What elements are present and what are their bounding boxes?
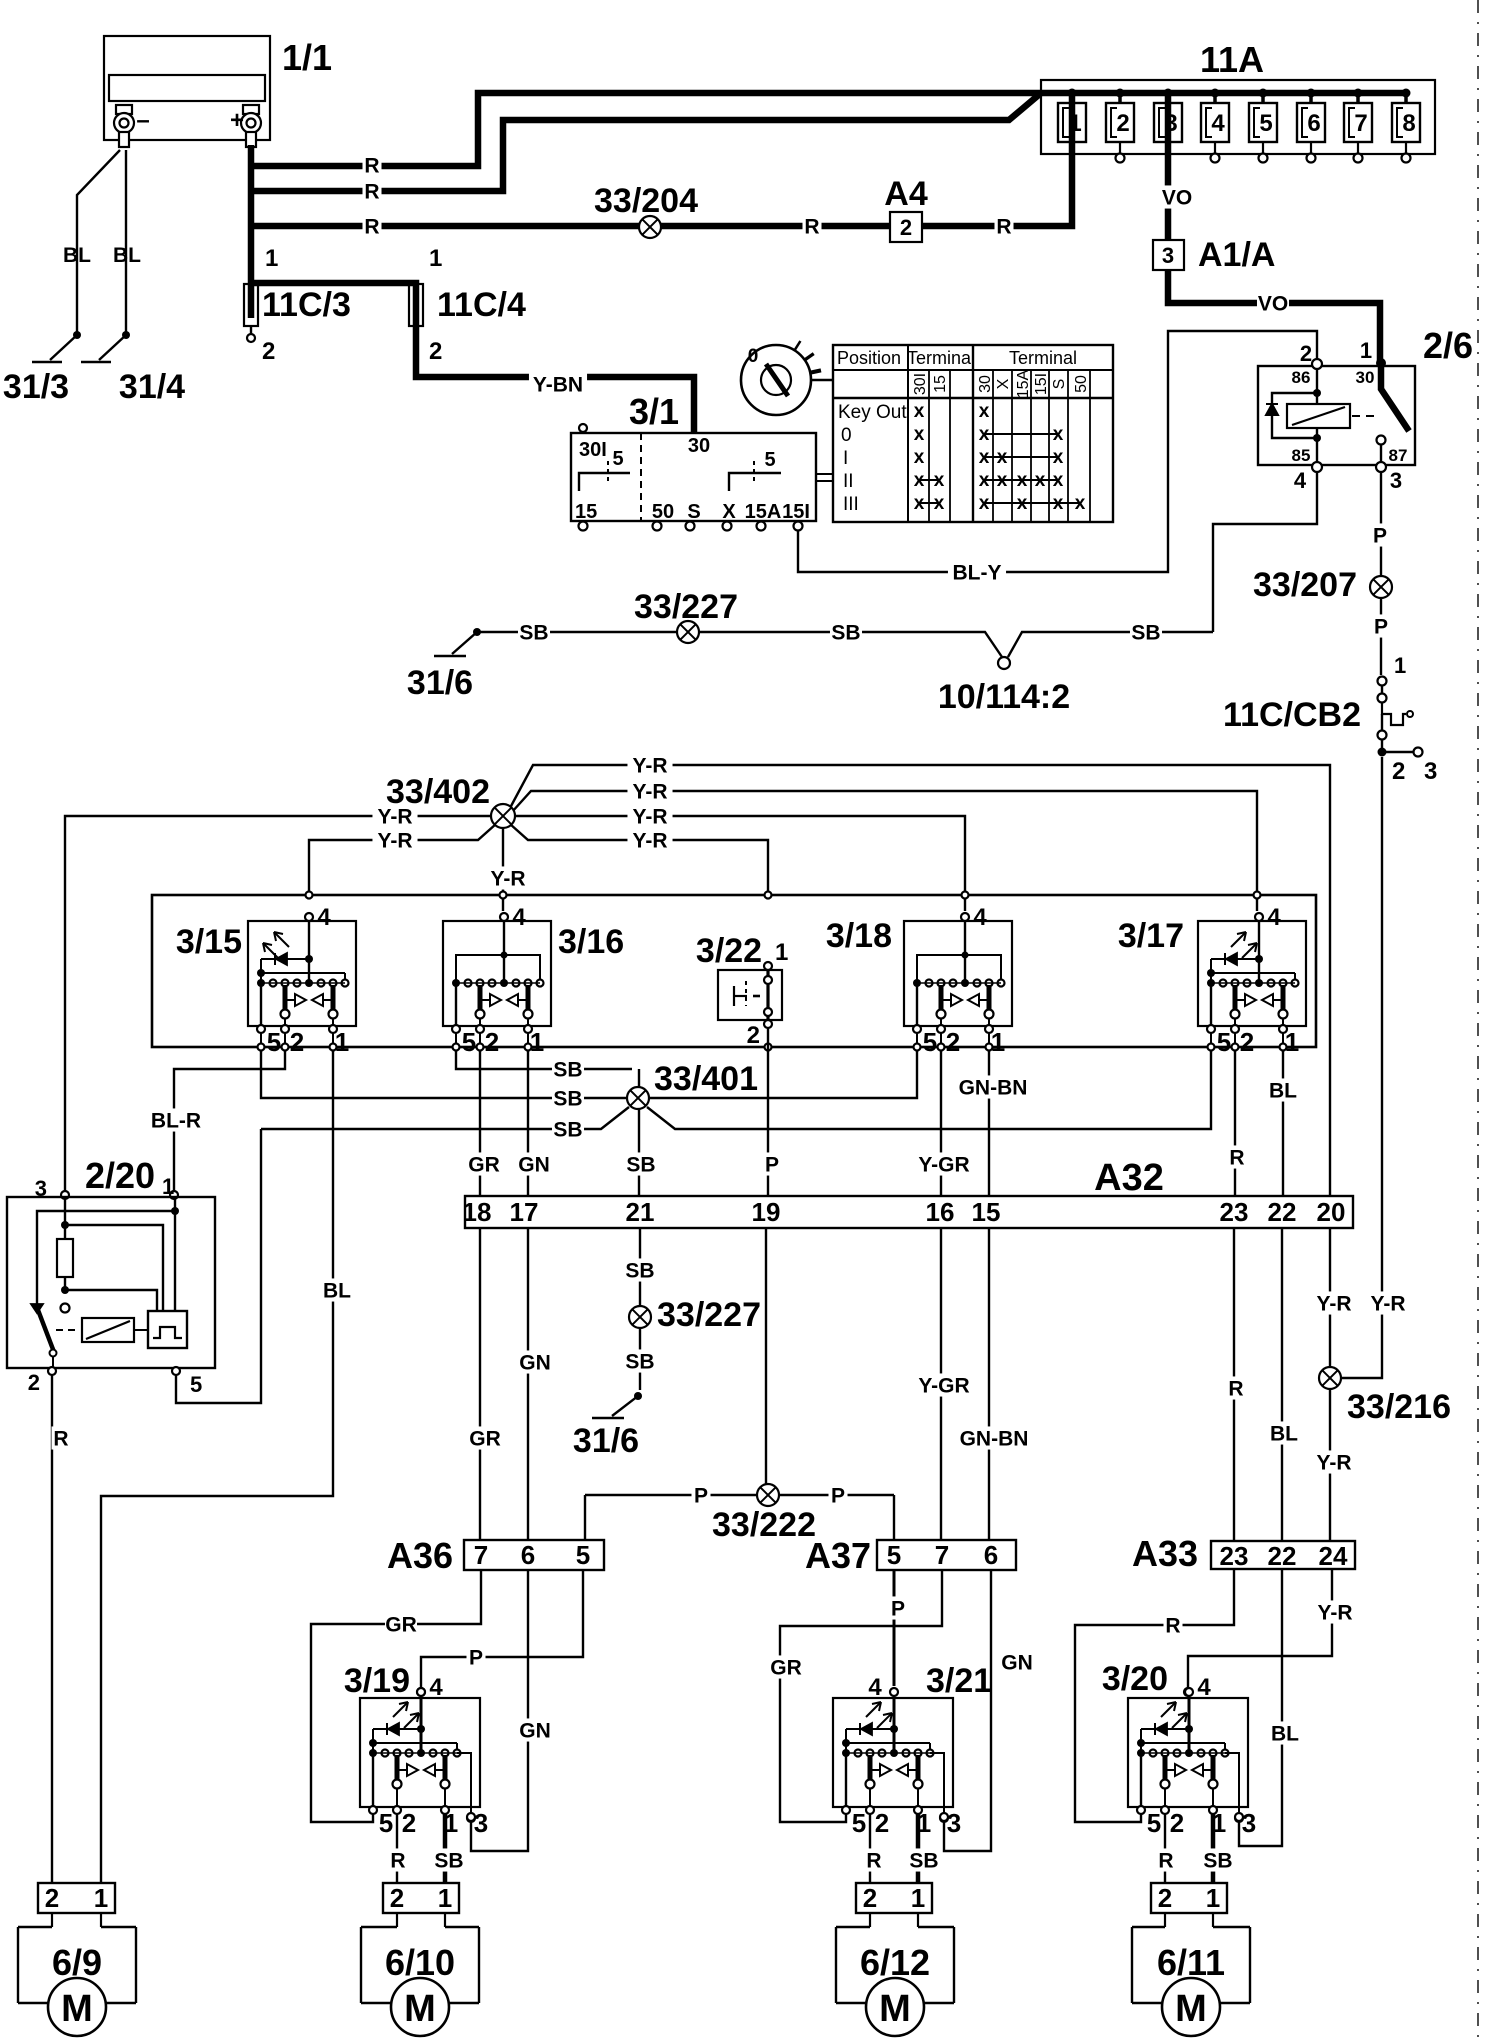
svg-text:S: S <box>687 501 700 523</box>
svg-text:4: 4 <box>1197 1674 1211 1701</box>
svg-text:11C/4: 11C/4 <box>437 286 526 324</box>
svg-text:SB: SB <box>909 1850 938 1873</box>
svg-text:Y-BN: Y-BN <box>533 374 583 397</box>
svg-text:Y-R: Y-R <box>1317 1602 1352 1625</box>
svg-text:I: I <box>843 448 848 469</box>
svg-text:19: 19 <box>752 1197 781 1227</box>
svg-text:33/207: 33/207 <box>1253 566 1357 604</box>
svg-text:15I: 15I <box>782 501 810 523</box>
svg-text:BL: BL <box>1270 1423 1298 1446</box>
svg-text:2: 2 <box>747 1022 760 1049</box>
svg-text:4: 4 <box>868 1674 882 1701</box>
svg-text:15A: 15A <box>745 501 782 523</box>
svg-text:Y-R: Y-R <box>632 830 667 853</box>
svg-text:33/216: 33/216 <box>1347 1388 1451 1426</box>
svg-text:10/114:2: 10/114:2 <box>938 678 1070 716</box>
svg-text:1: 1 <box>1394 653 1406 678</box>
svg-text:4: 4 <box>429 1674 443 1701</box>
svg-text:33/204: 33/204 <box>594 182 698 220</box>
svg-text:BL: BL <box>1269 1080 1297 1103</box>
svg-text:2: 2 <box>262 338 275 365</box>
svg-text:II: II <box>843 471 854 492</box>
svg-text:5: 5 <box>887 1540 901 1570</box>
svg-text:+: + <box>230 107 244 134</box>
svg-text:x: x <box>914 401 925 422</box>
svg-text:SB: SB <box>1131 622 1160 645</box>
svg-text:3/19: 3/19 <box>344 1662 410 1700</box>
svg-text:5: 5 <box>1217 1027 1231 1057</box>
svg-text:2/6: 2/6 <box>1423 325 1473 366</box>
svg-text:BL: BL <box>1271 1723 1299 1746</box>
svg-text:8: 8 <box>1402 110 1415 137</box>
svg-text:BL-Y: BL-Y <box>953 562 1002 585</box>
svg-text:R: R <box>1158 1850 1173 1873</box>
svg-text:A37: A37 <box>805 1535 871 1576</box>
svg-text:GR: GR <box>385 1614 417 1637</box>
svg-text:24: 24 <box>1319 1541 1348 1571</box>
svg-text:GN-BN: GN-BN <box>959 1077 1028 1100</box>
svg-text:50: 50 <box>652 501 674 523</box>
svg-text:1: 1 <box>775 939 788 966</box>
svg-text:0: 0 <box>748 346 759 367</box>
svg-text:BL: BL <box>113 244 141 267</box>
svg-text:2: 2 <box>946 1027 960 1057</box>
svg-text:31/6: 31/6 <box>407 664 473 702</box>
svg-text:86: 86 <box>1292 368 1311 387</box>
svg-text:GN: GN <box>519 1352 551 1375</box>
svg-text:7: 7 <box>474 1540 488 1570</box>
svg-text:M: M <box>404 1988 436 2030</box>
svg-text:3/21: 3/21 <box>926 1662 992 1700</box>
svg-text:5: 5 <box>1147 1808 1161 1838</box>
svg-text:6: 6 <box>521 1540 535 1570</box>
svg-text:P: P <box>765 1154 779 1177</box>
svg-text:M: M <box>1175 1988 1207 2030</box>
svg-text:2: 2 <box>290 1027 304 1057</box>
svg-text:SB: SB <box>434 1850 463 1873</box>
svg-text:2: 2 <box>863 1883 877 1913</box>
svg-text:R: R <box>390 1850 405 1873</box>
svg-text:2: 2 <box>1392 758 1405 785</box>
svg-text:16: 16 <box>926 1197 955 1227</box>
svg-text:R: R <box>1228 1378 1243 1401</box>
svg-text:18: 18 <box>463 1197 492 1227</box>
svg-text:5: 5 <box>379 1808 393 1838</box>
svg-text:Y-GR: Y-GR <box>918 1375 969 1398</box>
svg-text:GR: GR <box>468 1154 500 1177</box>
svg-text:VO: VO <box>1258 293 1288 316</box>
svg-text:A4: A4 <box>884 175 928 213</box>
svg-text:4: 4 <box>1294 468 1307 493</box>
svg-text:R: R <box>364 216 379 239</box>
svg-text:3: 3 <box>1390 468 1402 493</box>
svg-text:2: 2 <box>402 1808 416 1838</box>
svg-text:P: P <box>1374 616 1388 639</box>
svg-text:Terminal: Terminal <box>907 348 975 368</box>
svg-text:Y-R: Y-R <box>377 806 412 829</box>
svg-text:M: M <box>61 1988 93 2030</box>
svg-text:GN: GN <box>1001 1652 1033 1675</box>
svg-text:Y-R: Y-R <box>377 830 412 853</box>
svg-text:30: 30 <box>688 435 710 457</box>
svg-text:11C/CB2: 11C/CB2 <box>1223 696 1361 734</box>
svg-text:50: 50 <box>1073 375 1090 393</box>
svg-text:3: 3 <box>1424 758 1437 785</box>
svg-text:M: M <box>879 1988 911 2030</box>
svg-text:15A: 15A <box>1015 369 1032 398</box>
svg-text:11C/3: 11C/3 <box>262 286 351 324</box>
svg-text:R: R <box>804 216 819 239</box>
svg-text:R: R <box>364 181 379 204</box>
svg-text:2: 2 <box>1240 1027 1254 1057</box>
svg-text:Y-R: Y-R <box>490 868 525 891</box>
svg-text:x: x <box>914 424 925 445</box>
svg-text:85: 85 <box>1292 446 1311 465</box>
svg-text:5: 5 <box>576 1540 590 1570</box>
svg-text:3/16: 3/16 <box>558 923 624 961</box>
svg-text:GN: GN <box>519 1720 551 1743</box>
svg-text:22: 22 <box>1268 1197 1297 1227</box>
svg-text:III: III <box>843 494 859 515</box>
svg-text:33/227: 33/227 <box>634 588 738 626</box>
svg-text:31/4: 31/4 <box>119 368 185 406</box>
svg-text:R: R <box>53 1428 68 1451</box>
svg-text:SB: SB <box>626 1154 655 1177</box>
svg-text:4: 4 <box>1211 110 1225 137</box>
svg-text:1: 1 <box>429 245 442 272</box>
svg-text:1: 1 <box>1285 1027 1299 1057</box>
svg-text:BL: BL <box>323 1280 351 1303</box>
svg-text:3/15: 3/15 <box>176 923 242 961</box>
svg-text:3: 3 <box>474 1808 488 1838</box>
svg-text:6: 6 <box>1307 110 1320 137</box>
svg-text:Position: Position <box>837 348 901 368</box>
svg-text:X: X <box>995 378 1012 389</box>
svg-text:20: 20 <box>1317 1197 1346 1227</box>
svg-text:SB: SB <box>625 1351 654 1374</box>
svg-text:A33: A33 <box>1132 1533 1198 1574</box>
svg-text:GN: GN <box>518 1154 550 1177</box>
svg-text:Y-GR: Y-GR <box>918 1154 969 1177</box>
svg-text:4: 4 <box>1267 904 1281 931</box>
svg-text:1: 1 <box>1206 1883 1220 1913</box>
svg-text:SB: SB <box>625 1260 654 1283</box>
svg-text:R: R <box>1229 1147 1244 1170</box>
svg-text:P: P <box>469 1647 483 1670</box>
svg-text:Terminal: Terminal <box>1009 348 1077 368</box>
svg-text:P: P <box>831 1485 845 1508</box>
svg-text:2: 2 <box>1116 110 1129 137</box>
svg-text:2: 2 <box>45 1883 59 1913</box>
svg-text:1: 1 <box>991 1027 1005 1057</box>
svg-text:30: 30 <box>1356 368 1375 387</box>
svg-text:2/20: 2/20 <box>85 1155 155 1196</box>
svg-text:R: R <box>1165 1615 1180 1638</box>
svg-text:2: 2 <box>429 338 442 365</box>
svg-text:5: 5 <box>462 1027 476 1057</box>
svg-text:3/20: 3/20 <box>1102 1660 1168 1698</box>
svg-text:1: 1 <box>162 1174 174 1199</box>
svg-text:5: 5 <box>190 1372 202 1397</box>
svg-text:1: 1 <box>265 245 278 272</box>
svg-text:3/22: 3/22 <box>696 932 762 970</box>
svg-text:1: 1 <box>94 1883 108 1913</box>
svg-text:Y-R: Y-R <box>632 781 667 804</box>
svg-text:5: 5 <box>267 1027 281 1057</box>
svg-text:4: 4 <box>973 904 987 931</box>
svg-text:15I: 15I <box>1033 373 1050 395</box>
svg-text:2: 2 <box>900 215 912 240</box>
svg-text:4: 4 <box>512 904 526 931</box>
svg-text:GR: GR <box>469 1428 501 1451</box>
svg-text:R: R <box>996 216 1011 239</box>
svg-text:3: 3 <box>1164 110 1177 137</box>
svg-text:R: R <box>866 1850 881 1873</box>
svg-text:17: 17 <box>510 1197 539 1227</box>
svg-text:5: 5 <box>923 1027 937 1057</box>
svg-text:5: 5 <box>1259 110 1272 137</box>
svg-text:P: P <box>694 1485 708 1508</box>
svg-text:S: S <box>1051 379 1068 390</box>
svg-text:3: 3 <box>1162 243 1174 268</box>
svg-text:P: P <box>1373 525 1387 548</box>
svg-text:BL: BL <box>63 244 91 267</box>
svg-text:1: 1 <box>438 1883 452 1913</box>
svg-text:1: 1 <box>1360 338 1372 363</box>
svg-text:33/227: 33/227 <box>657 1296 761 1334</box>
svg-text:Y-R: Y-R <box>1370 1293 1405 1316</box>
svg-text:SB: SB <box>553 1059 582 1082</box>
svg-text:15: 15 <box>932 375 949 393</box>
svg-text:33/222: 33/222 <box>712 1506 816 1544</box>
svg-text:23: 23 <box>1220 1197 1249 1227</box>
svg-text:7: 7 <box>1354 110 1367 137</box>
svg-text:Y-R: Y-R <box>1316 1293 1351 1316</box>
svg-text:Y-R: Y-R <box>632 806 667 829</box>
svg-text:x: x <box>979 401 990 422</box>
svg-text:A36: A36 <box>387 1535 453 1576</box>
svg-text:30I: 30I <box>912 373 929 395</box>
svg-text:15: 15 <box>972 1197 1001 1227</box>
svg-text:SB: SB <box>519 622 548 645</box>
svg-text:3: 3 <box>1242 1808 1256 1838</box>
svg-text:5: 5 <box>612 448 623 470</box>
svg-text:SB: SB <box>553 1119 582 1142</box>
svg-text:22: 22 <box>1268 1541 1297 1571</box>
svg-text:7: 7 <box>935 1540 949 1570</box>
svg-text:2: 2 <box>875 1808 889 1838</box>
svg-text:31/6: 31/6 <box>573 1422 639 1460</box>
svg-text:x: x <box>914 447 925 468</box>
svg-text:A1/A: A1/A <box>1198 236 1275 274</box>
svg-text:BL-R: BL-R <box>151 1110 201 1133</box>
svg-text:5: 5 <box>852 1808 866 1838</box>
svg-text:3: 3 <box>947 1808 961 1838</box>
svg-text:5: 5 <box>764 449 775 471</box>
svg-text:Y-R: Y-R <box>632 755 667 778</box>
svg-text:31/3: 31/3 <box>3 368 69 406</box>
svg-text:GN-BN: GN-BN <box>960 1428 1029 1451</box>
svg-text:2: 2 <box>1158 1883 1172 1913</box>
svg-text:Key Out: Key Out <box>838 402 907 423</box>
svg-text:2: 2 <box>1170 1808 1184 1838</box>
svg-text:3/1: 3/1 <box>629 391 679 432</box>
svg-text:1: 1 <box>1068 110 1081 137</box>
svg-text:1/1: 1/1 <box>282 37 332 78</box>
svg-text:2: 2 <box>1300 341 1312 366</box>
svg-text:3/17: 3/17 <box>1118 917 1184 955</box>
svg-text:2: 2 <box>485 1027 499 1057</box>
svg-text:2: 2 <box>28 1370 40 1395</box>
svg-text:1: 1 <box>335 1027 349 1057</box>
svg-text:30: 30 <box>977 375 994 393</box>
svg-text:P: P <box>891 1598 905 1621</box>
svg-text:SB: SB <box>831 622 860 645</box>
svg-text:SB: SB <box>1203 1850 1232 1873</box>
svg-text:23: 23 <box>1220 1541 1249 1571</box>
svg-text:11A: 11A <box>1200 39 1264 80</box>
svg-text:SB: SB <box>553 1088 582 1111</box>
svg-text:3/18: 3/18 <box>826 917 892 955</box>
svg-text:2: 2 <box>390 1883 404 1913</box>
svg-text:A32: A32 <box>1094 1157 1164 1199</box>
svg-text:–: – <box>136 107 149 134</box>
svg-text:21: 21 <box>626 1197 655 1227</box>
svg-text:VO: VO <box>1162 187 1192 210</box>
svg-text:33/401: 33/401 <box>654 1060 758 1098</box>
svg-text:87: 87 <box>1389 446 1408 465</box>
svg-text:15: 15 <box>575 501 597 523</box>
svg-text:6: 6 <box>984 1540 998 1570</box>
svg-text:GR: GR <box>770 1657 802 1680</box>
svg-text:1: 1 <box>530 1027 544 1057</box>
svg-text:4: 4 <box>317 904 331 931</box>
svg-text:R: R <box>364 155 379 178</box>
svg-text:30I: 30I <box>579 439 607 461</box>
svg-text:1: 1 <box>911 1883 925 1913</box>
svg-text:3: 3 <box>35 1176 47 1201</box>
svg-text:0: 0 <box>841 425 852 446</box>
svg-text:Y-R: Y-R <box>1316 1452 1351 1475</box>
svg-text:X: X <box>722 501 736 523</box>
